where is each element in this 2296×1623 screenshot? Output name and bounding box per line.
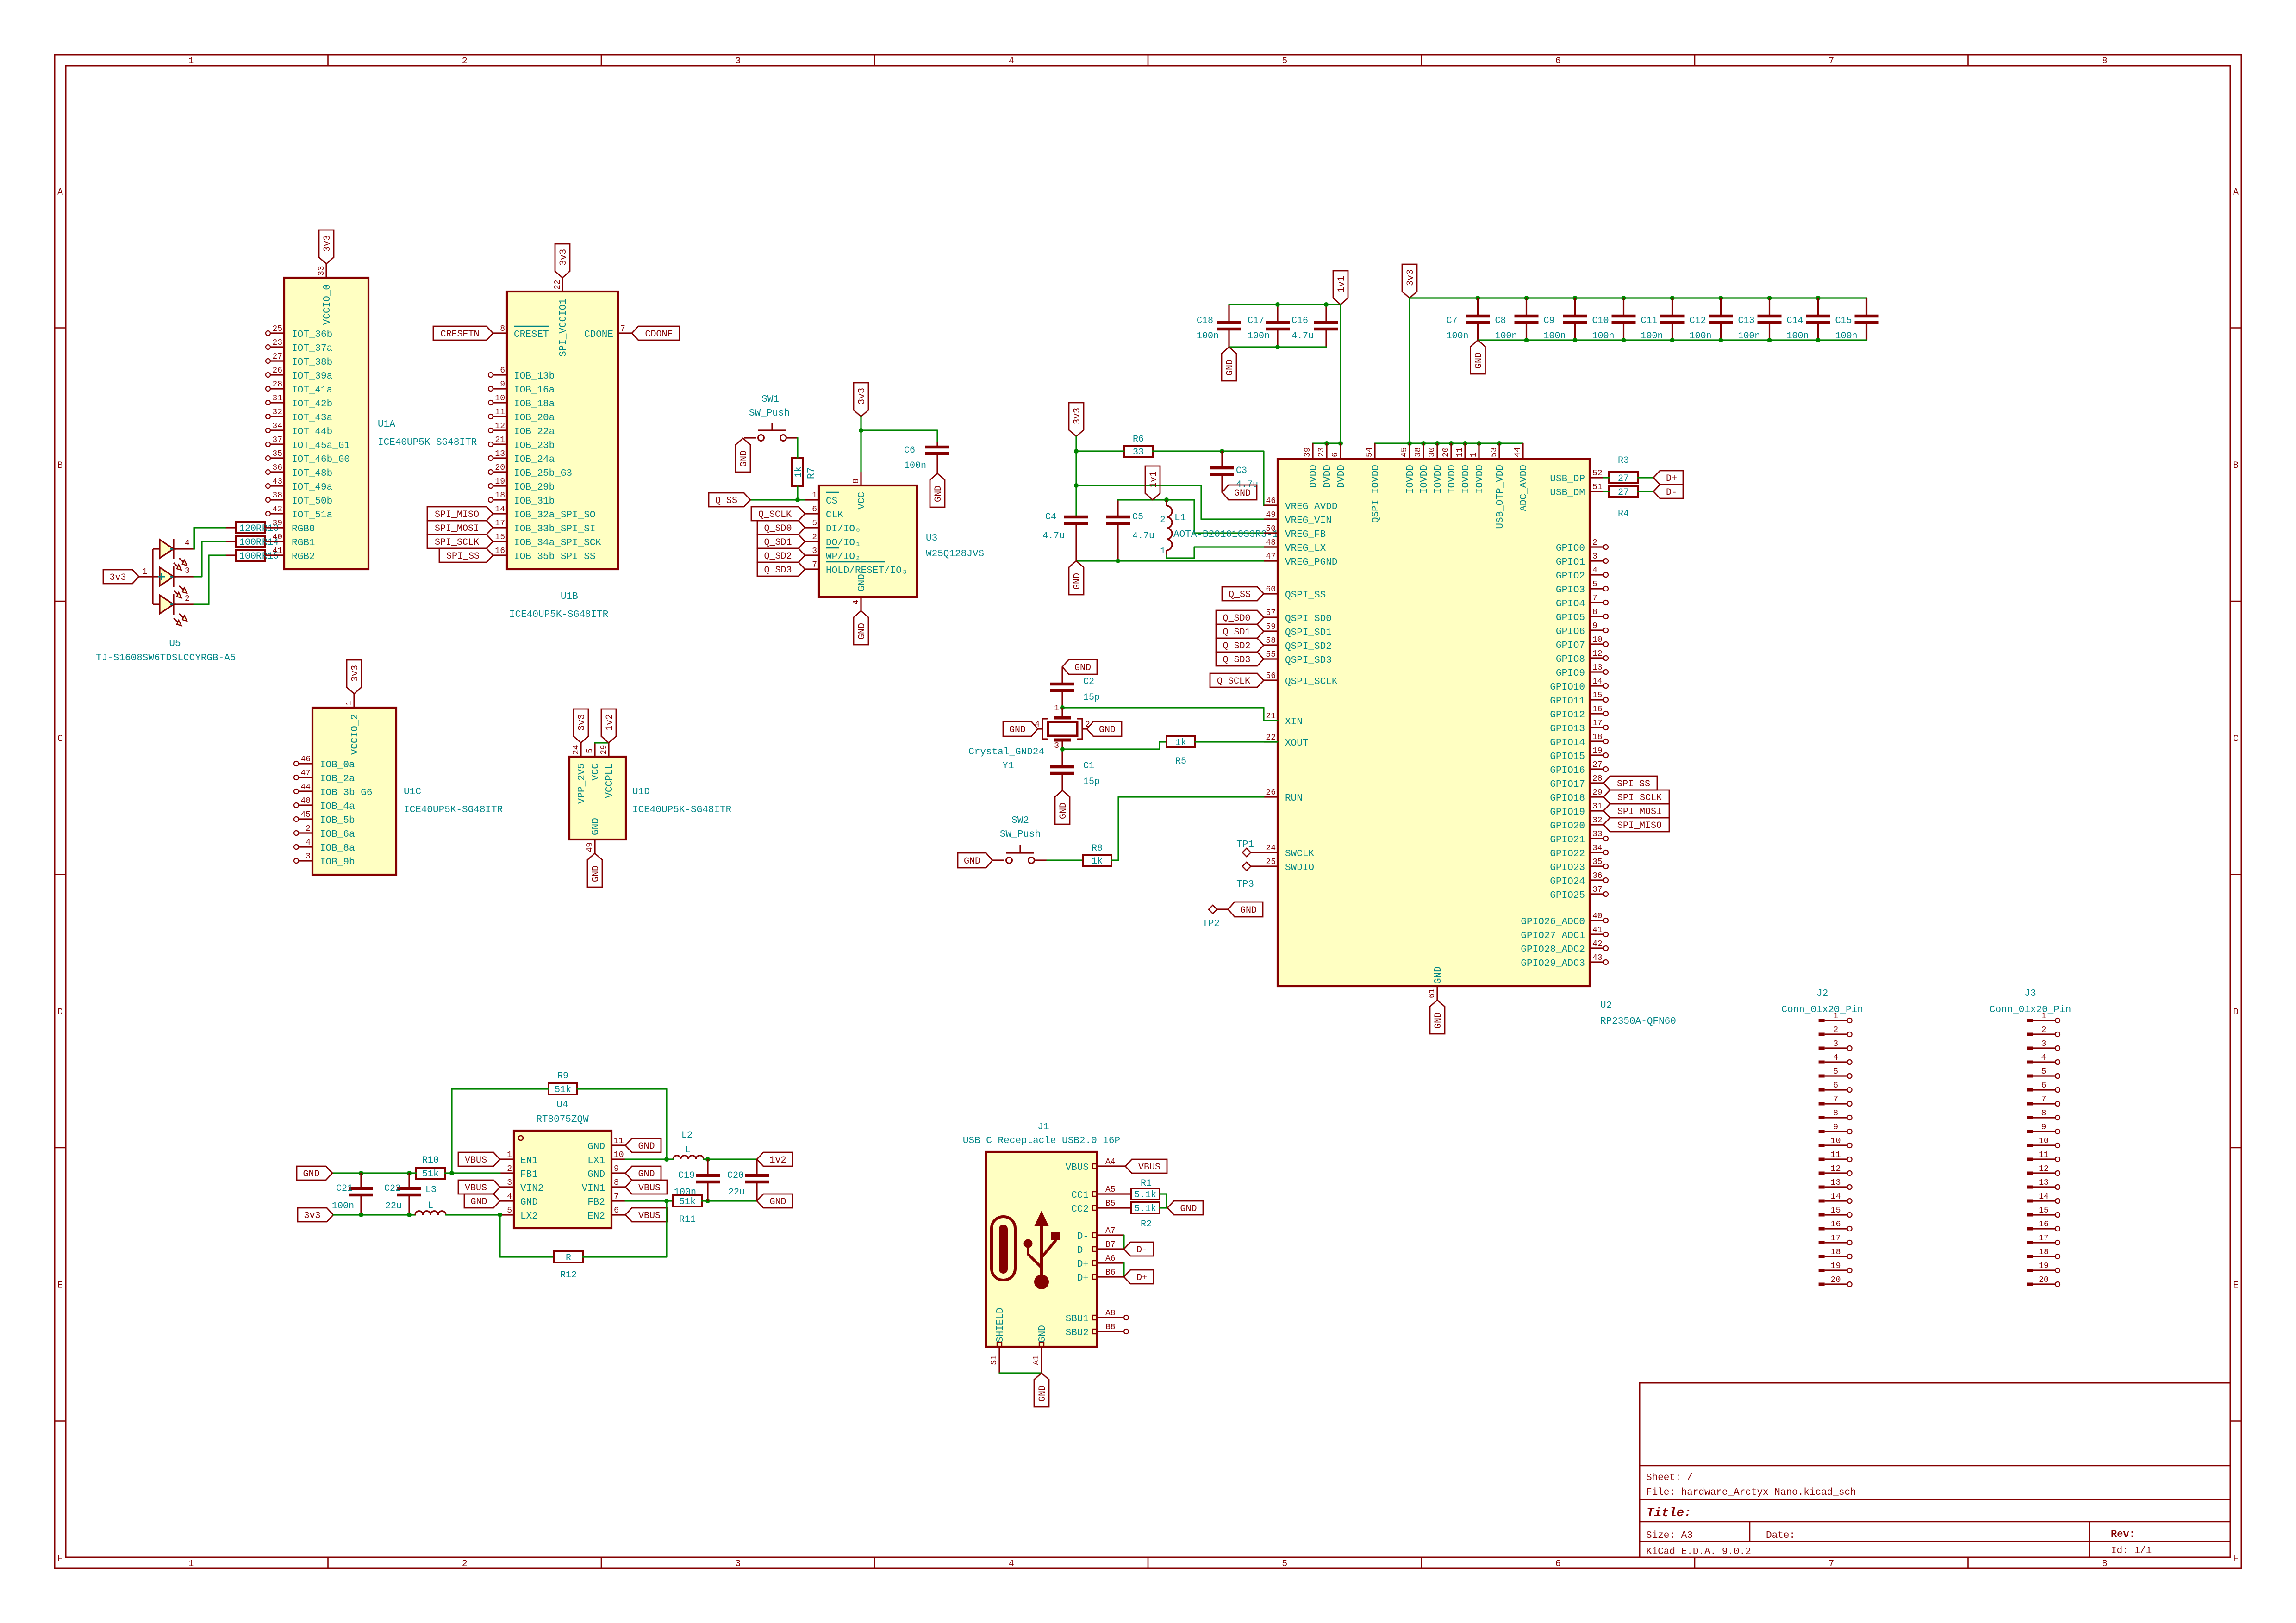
svg-text:A6: A6 bbox=[1105, 1254, 1116, 1263]
svg-text:IOB_8a: IOB_8a bbox=[320, 843, 355, 854]
svg-text:DI/IO₀: DI/IO₀ bbox=[826, 524, 861, 535]
power flag GND (C4/C5) bbox=[1069, 561, 1084, 595]
svg-text:SPI_SS: SPI_SS bbox=[446, 551, 480, 562]
capacitor C1 15p bbox=[1050, 749, 1100, 790]
svg-text:1: 1 bbox=[1160, 546, 1165, 556]
svg-text:IOB_13b: IOB_13b bbox=[514, 371, 555, 382]
svg-text:19: 19 bbox=[495, 477, 505, 486]
svg-text:31: 31 bbox=[272, 394, 282, 403]
svg-text:6: 6 bbox=[614, 1206, 619, 1215]
svg-text:5.1k: 5.1k bbox=[1134, 1204, 1156, 1214]
svg-text:GND: GND bbox=[1240, 905, 1257, 916]
global label GND (C21/C22 top) bbox=[297, 1166, 332, 1180]
svg-text:1v1: 1v1 bbox=[1148, 471, 1159, 488]
wire XOUT net bbox=[1060, 742, 1167, 752]
global label CDONE bbox=[632, 326, 680, 340]
wire SW1-R7 bbox=[797, 438, 798, 458]
svg-text:GPIO5: GPIO5 bbox=[1556, 613, 1585, 623]
global label Q_SD3 (U2) bbox=[1216, 652, 1264, 666]
svg-text:R13: R13 bbox=[262, 523, 279, 534]
svg-text:C22: C22 bbox=[384, 1183, 401, 1194]
svg-text:31: 31 bbox=[1592, 802, 1603, 811]
svg-text:CRESETN: CRESETN bbox=[440, 329, 479, 340]
svg-text:51: 51 bbox=[1592, 483, 1603, 492]
global label Q_SD0 (U2) bbox=[1216, 610, 1264, 624]
svg-text:8: 8 bbox=[852, 479, 861, 484]
wire C18/C17/C16 bottoms to GND bbox=[1229, 345, 1326, 349]
svg-text:20: 20 bbox=[2039, 1275, 2049, 1285]
svg-text:SPI_SCLK: SPI_SCLK bbox=[435, 537, 479, 548]
svg-text:GPIO19: GPIO19 bbox=[1550, 807, 1585, 818]
capacitor C3 4.7u bbox=[1210, 451, 1258, 492]
inductor L2 L bbox=[673, 1130, 704, 1159]
svg-text:R14: R14 bbox=[262, 537, 279, 548]
svg-text:VCCIO_0: VCCIO_0 bbox=[322, 284, 333, 325]
IC U1C ICE40UP5K-SG48ITR (I/O bank 2) bbox=[294, 694, 503, 875]
svg-text:120R: 120R bbox=[239, 523, 262, 534]
svg-text:7: 7 bbox=[812, 560, 817, 570]
svg-text:GPIO1: GPIO1 bbox=[1556, 557, 1585, 568]
svg-text:32: 32 bbox=[1592, 816, 1603, 825]
svg-text:10: 10 bbox=[495, 394, 505, 403]
svg-text:QSPI_SCLK: QSPI_SCLK bbox=[1285, 677, 1338, 687]
svg-text:28: 28 bbox=[1592, 774, 1603, 784]
wire R5 to XOUT bbox=[1195, 741, 1278, 742]
svg-text:IOT_41a: IOT_41a bbox=[292, 385, 332, 396]
svg-text:F: F bbox=[2233, 1554, 2239, 1564]
global label GND (U4 pin 4) bbox=[464, 1194, 500, 1208]
svg-text:GND: GND bbox=[857, 623, 867, 640]
svg-text:1v1: 1v1 bbox=[1336, 276, 1347, 292]
svg-text:GND: GND bbox=[520, 1197, 538, 1208]
svg-text:VCC: VCC bbox=[857, 492, 867, 510]
global label SPI_SS bbox=[439, 548, 493, 562]
svg-text:35: 35 bbox=[272, 449, 282, 459]
wire LX1-L2 bbox=[667, 1158, 673, 1160]
svg-text:7: 7 bbox=[620, 324, 625, 334]
power flag 3v3 (VREG input) bbox=[1069, 403, 1084, 436]
svg-text:12: 12 bbox=[1831, 1164, 1841, 1174]
svg-text:IOVDD: IOVDD bbox=[1461, 465, 1472, 494]
svg-text:SHIELD: SHIELD bbox=[995, 1307, 1006, 1343]
svg-text:VBUS: VBUS bbox=[638, 1183, 661, 1194]
global label D+ bbox=[1653, 471, 1683, 485]
svg-text:6: 6 bbox=[1555, 56, 1561, 67]
svg-text:4.7u: 4.7u bbox=[1291, 331, 1314, 342]
wire 3v3 to VCC and C6 bbox=[859, 417, 937, 472]
svg-text:GPIO0: GPIO0 bbox=[1556, 543, 1585, 554]
svg-text:9: 9 bbox=[614, 1164, 619, 1174]
svg-text:SWCLK: SWCLK bbox=[1285, 849, 1314, 859]
svg-text:C19: C19 bbox=[678, 1170, 695, 1181]
resistor R1 5.1k bbox=[1131, 1178, 1160, 1200]
svg-text:RUN: RUN bbox=[1285, 793, 1303, 804]
power flag GND (C7 rail) bbox=[1471, 340, 1485, 374]
svg-text:U1A: U1A bbox=[378, 419, 395, 430]
svg-text:7: 7 bbox=[1828, 56, 1834, 67]
svg-text:SPI_MOSI: SPI_MOSI bbox=[435, 523, 479, 534]
svg-text:Q_SD0: Q_SD0 bbox=[764, 523, 792, 534]
svg-text:1k: 1k bbox=[1175, 738, 1186, 748]
svg-text:4: 4 bbox=[185, 539, 190, 548]
svg-text:A1: A1 bbox=[1032, 1355, 1041, 1365]
svg-text:17: 17 bbox=[495, 519, 505, 528]
capacitor C17 100n bbox=[1248, 305, 1290, 347]
global label Q_SD2 (U2) bbox=[1216, 638, 1264, 652]
svg-text:IOB_0a: IOB_0a bbox=[320, 760, 355, 771]
svg-text:WP/IO₂: WP/IO₂ bbox=[826, 552, 861, 562]
svg-text:26: 26 bbox=[1266, 788, 1276, 797]
svg-text:43: 43 bbox=[1592, 953, 1603, 963]
global label Q_SS (U3 CS) bbox=[709, 493, 750, 507]
svg-text:U3: U3 bbox=[926, 533, 937, 544]
svg-text:18: 18 bbox=[2039, 1248, 2049, 1257]
svg-text:5: 5 bbox=[507, 1206, 512, 1215]
svg-text:GND: GND bbox=[739, 450, 749, 467]
wire 1v1 feedback rail bbox=[1118, 497, 1278, 533]
svg-text:Size: A3: Size: A3 bbox=[1646, 1530, 1693, 1541]
svg-text:C3: C3 bbox=[1236, 466, 1247, 476]
svg-text:4: 4 bbox=[1009, 1559, 1014, 1569]
wire R1/R2 to GND bbox=[1160, 1194, 1167, 1208]
svg-text:2: 2 bbox=[812, 533, 817, 542]
svg-text:RGB1: RGB1 bbox=[292, 538, 315, 548]
power flag GND (C3) bbox=[1222, 485, 1257, 500]
svg-text:2: 2 bbox=[462, 1559, 468, 1569]
global label SPI_SS (GPIO17) bbox=[1603, 776, 1657, 790]
svg-text:E: E bbox=[2233, 1280, 2239, 1291]
svg-text:15: 15 bbox=[495, 533, 505, 542]
svg-text:Id: 1/1: Id: 1/1 bbox=[2111, 1546, 2152, 1556]
svg-text:IOB_32a_SPI_SO: IOB_32a_SPI_SO bbox=[514, 510, 595, 521]
connector J1 USB_C_Receptacle_USB2.0_16P bbox=[963, 1122, 1131, 1373]
svg-text:4: 4 bbox=[2041, 1053, 2046, 1063]
svg-text:5: 5 bbox=[2041, 1067, 2046, 1076]
power flag 3v3 (U1A pin 33) bbox=[319, 230, 334, 264]
svg-text:A4: A4 bbox=[1105, 1157, 1116, 1167]
svg-text:C4: C4 bbox=[1045, 512, 1056, 522]
power flag 3v3 (U3 VCC) bbox=[854, 383, 868, 417]
svg-text:ICE40UP5K-SG48ITR: ICE40UP5K-SG48ITR bbox=[378, 437, 477, 448]
svg-text:GND: GND bbox=[1180, 1204, 1197, 1214]
svg-text:8: 8 bbox=[500, 324, 505, 334]
IC U2 RP2350A-QFN60 microcontroller bbox=[1264, 443, 1676, 1027]
svg-text:27: 27 bbox=[272, 352, 282, 361]
svg-text:C8: C8 bbox=[1495, 316, 1506, 326]
capacitor C18 100n bbox=[1197, 305, 1241, 347]
svg-text:2: 2 bbox=[507, 1164, 512, 1174]
svg-text:QSPI_IOVDD: QSPI_IOVDD bbox=[1371, 465, 1381, 523]
svg-text:100R: 100R bbox=[239, 551, 262, 562]
svg-text:IOB_25b_G3: IOB_25b_G3 bbox=[514, 468, 572, 479]
svg-text:11: 11 bbox=[614, 1137, 624, 1146]
svg-text:5: 5 bbox=[812, 519, 817, 528]
svg-text:CDONE: CDONE bbox=[584, 330, 613, 340]
power flag GND (SW1) bbox=[736, 438, 750, 472]
global label VBUS (VIN2) bbox=[458, 1180, 500, 1194]
svg-text:C: C bbox=[57, 734, 63, 744]
svg-text:F: F bbox=[57, 1554, 63, 1564]
capacitor C21 100n bbox=[332, 1173, 373, 1215]
svg-text:1: 1 bbox=[142, 567, 147, 577]
svg-text:IOT_36b: IOT_36b bbox=[292, 330, 332, 340]
svg-text:3v3: 3v3 bbox=[322, 235, 333, 252]
svg-text:Q_SD3: Q_SD3 bbox=[1223, 655, 1250, 665]
svg-text:GND: GND bbox=[591, 818, 601, 835]
svg-text:W25Q128JVS: W25Q128JVS bbox=[926, 549, 984, 560]
svg-text:C7: C7 bbox=[1447, 316, 1458, 326]
capacitor C13 100n bbox=[1738, 298, 1782, 342]
svg-text:VBUS: VBUS bbox=[1066, 1163, 1089, 1173]
capacitor C7 100n bbox=[1447, 298, 1490, 342]
svg-text:LX1: LX1 bbox=[587, 1156, 605, 1166]
svg-text:C20: C20 bbox=[727, 1170, 744, 1181]
power flag GND (Y1 pin 4) bbox=[1003, 721, 1038, 736]
svg-text:B8: B8 bbox=[1105, 1323, 1116, 1332]
global label SPI_MISO bbox=[427, 507, 493, 521]
push button SW1 SW_Push bbox=[744, 394, 798, 441]
wire VCC to 1v2 bbox=[595, 742, 609, 743]
capacitor C8 100n bbox=[1495, 298, 1539, 342]
capacitor C6 100n bbox=[904, 442, 949, 473]
svg-text:GND: GND bbox=[1433, 1012, 1444, 1029]
svg-text:4: 4 bbox=[507, 1192, 512, 1201]
svg-text:2: 2 bbox=[306, 824, 311, 833]
svg-text:U1C: U1C bbox=[404, 787, 421, 797]
svg-text:C17: C17 bbox=[1248, 316, 1264, 326]
svg-text:23: 23 bbox=[1317, 447, 1326, 457]
IC U4 RT8075ZQW dual buck bbox=[500, 1100, 625, 1228]
svg-text:IOB_34a_SPI_SCK: IOB_34a_SPI_SCK bbox=[514, 538, 601, 548]
svg-text:25: 25 bbox=[272, 324, 282, 334]
inductor L1 AOTA-B201610S3R3-101-T bbox=[1160, 500, 1302, 556]
svg-text:47: 47 bbox=[300, 769, 311, 778]
svg-text:Q_SD0: Q_SD0 bbox=[1223, 613, 1250, 624]
svg-text:29: 29 bbox=[599, 745, 609, 755]
svg-text:Q_SD1: Q_SD1 bbox=[1223, 627, 1250, 638]
wire 1v1 rail (C18/C17/C16 tops) bbox=[1229, 302, 1341, 307]
svg-text:100n: 100n bbox=[1447, 331, 1469, 342]
svg-text:GPIO24: GPIO24 bbox=[1550, 877, 1585, 887]
wire FB2 to R11 bbox=[625, 1199, 673, 1203]
svg-text:GND: GND bbox=[638, 1141, 655, 1152]
capacitor C16 4.7u bbox=[1291, 305, 1338, 347]
resistor R13 120R bbox=[225, 522, 284, 534]
svg-text:IOB_3b_G6: IOB_3b_G6 bbox=[320, 788, 372, 798]
svg-text:GPIO27_ADC1: GPIO27_ADC1 bbox=[1521, 931, 1585, 941]
svg-text:2: 2 bbox=[185, 594, 190, 603]
svg-text:U2: U2 bbox=[1600, 1001, 1612, 1011]
svg-text:IOB_33b_SPI_SI: IOB_33b_SPI_SI bbox=[514, 524, 595, 535]
svg-text:GND: GND bbox=[591, 865, 601, 882]
svg-text:IOT_39a: IOT_39a bbox=[292, 371, 332, 382]
power flag GND (C6) bbox=[930, 473, 945, 507]
svg-text:46: 46 bbox=[1266, 497, 1276, 506]
svg-text:6: 6 bbox=[1555, 1559, 1561, 1569]
svg-text:C1: C1 bbox=[1083, 761, 1094, 771]
svg-text:58: 58 bbox=[1266, 636, 1276, 646]
resistor R4 27 bbox=[1609, 486, 1638, 519]
capacitor C9 100n bbox=[1544, 298, 1587, 342]
svg-text:GND: GND bbox=[1058, 802, 1069, 819]
capacitor C5 4.7u bbox=[1106, 500, 1154, 561]
global label Q_SD0 (U3 DI) bbox=[757, 521, 805, 535]
svg-text:IOT_48b: IOT_48b bbox=[292, 468, 332, 479]
svg-text:11: 11 bbox=[495, 408, 505, 417]
svg-text:20: 20 bbox=[1441, 447, 1451, 457]
svg-text:22: 22 bbox=[1266, 733, 1276, 742]
svg-text:R4: R4 bbox=[1618, 509, 1629, 519]
svg-text:3v3: 3v3 bbox=[109, 572, 126, 583]
svg-text:IOB_24a: IOB_24a bbox=[514, 454, 555, 465]
svg-text:7: 7 bbox=[1592, 594, 1597, 603]
svg-text:18: 18 bbox=[495, 491, 505, 500]
resistor R14 100R bbox=[225, 536, 284, 548]
wire D- pair bbox=[1123, 1235, 1124, 1249]
resistor R2 5.1k bbox=[1131, 1202, 1160, 1230]
wire R6 to VREG_AVDD and C3 bbox=[1153, 449, 1278, 505]
svg-text:GPIO17: GPIO17 bbox=[1550, 779, 1585, 790]
svg-text:3: 3 bbox=[185, 566, 190, 576]
svg-text:S1: S1 bbox=[990, 1355, 999, 1365]
svg-text:13: 13 bbox=[2039, 1178, 2049, 1188]
wire R9 left to FB1 bbox=[449, 1089, 549, 1175]
svg-text:3v3: 3v3 bbox=[857, 388, 867, 404]
capacitor C10 100n bbox=[1592, 298, 1636, 342]
svg-text:GPIO7: GPIO7 bbox=[1556, 640, 1585, 651]
svg-text:61: 61 bbox=[1428, 988, 1437, 998]
global label Q_SCLK (U3 CLK) bbox=[751, 507, 805, 521]
svg-text:QSPI_SS: QSPI_SS bbox=[1285, 590, 1326, 601]
svg-text:22u: 22u bbox=[728, 1187, 745, 1198]
global label 3v3 (L3 output) bbox=[298, 1208, 333, 1222]
svg-text:2: 2 bbox=[1833, 1026, 1838, 1035]
svg-text:3: 3 bbox=[735, 56, 741, 67]
svg-text:26: 26 bbox=[272, 366, 282, 375]
svg-text:LX2: LX2 bbox=[520, 1211, 538, 1222]
svg-text:GND: GND bbox=[964, 856, 980, 867]
svg-text:100n: 100n bbox=[674, 1187, 696, 1198]
svg-text:SBU1: SBU1 bbox=[1066, 1314, 1089, 1325]
svg-text:IOT_45a_G1: IOT_45a_G1 bbox=[292, 441, 350, 451]
svg-text:ICE40UP5K-SG48ITR: ICE40UP5K-SG48ITR bbox=[509, 609, 609, 620]
svg-text:GPIO22: GPIO22 bbox=[1550, 849, 1585, 859]
svg-text:GPIO13: GPIO13 bbox=[1550, 724, 1585, 734]
svg-text:IOT_37a: IOT_37a bbox=[292, 343, 332, 354]
svg-text:IOB_35b_SPI_SS: IOB_35b_SPI_SS bbox=[514, 552, 595, 562]
resistor R10 51k bbox=[416, 1155, 445, 1180]
svg-text:SPI_MISO: SPI_MISO bbox=[1617, 821, 1662, 831]
svg-text:C10: C10 bbox=[1592, 316, 1609, 326]
svg-text:CC2: CC2 bbox=[1071, 1204, 1089, 1215]
svg-text:8: 8 bbox=[1833, 1109, 1838, 1118]
svg-text:16: 16 bbox=[495, 547, 505, 556]
svg-text:IOVDD: IOVDD bbox=[1419, 465, 1430, 494]
svg-text:Conn_01x20_Pin: Conn_01x20_Pin bbox=[1781, 1005, 1863, 1015]
svg-text:GPIO9: GPIO9 bbox=[1556, 668, 1585, 679]
svg-text:C18: C18 bbox=[1197, 316, 1213, 326]
svg-text:17: 17 bbox=[2039, 1234, 2049, 1243]
svg-text:3v3: 3v3 bbox=[577, 714, 587, 731]
svg-text:3: 3 bbox=[812, 547, 817, 556]
wire R11 to GND label bbox=[702, 1199, 757, 1203]
svg-text:6: 6 bbox=[812, 505, 817, 514]
svg-text:3: 3 bbox=[507, 1178, 512, 1188]
svg-text:5: 5 bbox=[586, 748, 595, 753]
svg-text:51k: 51k bbox=[422, 1169, 439, 1180]
wire 1v1 to DVDD pins bbox=[1313, 305, 1343, 446]
svg-text:IOVDD: IOVDD bbox=[1475, 465, 1485, 494]
global label CRESETN bbox=[433, 326, 493, 340]
svg-text:2: 2 bbox=[462, 56, 468, 67]
svg-text:100n: 100n bbox=[1197, 331, 1219, 342]
global label Q_SD3 (U3 HOLD) bbox=[757, 562, 805, 576]
svg-text:12: 12 bbox=[495, 422, 505, 431]
svg-text:GPIO6: GPIO6 bbox=[1556, 627, 1585, 637]
svg-text:VCCIO_2: VCCIO_2 bbox=[350, 714, 361, 755]
svg-text:8: 8 bbox=[2102, 56, 2108, 67]
svg-text:L2: L2 bbox=[681, 1130, 693, 1141]
svg-text:2: 2 bbox=[2041, 1026, 2046, 1035]
svg-text:17: 17 bbox=[1831, 1234, 1841, 1243]
svg-text:GND: GND bbox=[303, 1169, 319, 1180]
svg-text:A7: A7 bbox=[1105, 1226, 1116, 1236]
svg-text:VREG_FB: VREG_FB bbox=[1285, 529, 1326, 540]
svg-text:10: 10 bbox=[1831, 1137, 1841, 1146]
svg-text:IOB_18a: IOB_18a bbox=[514, 399, 555, 410]
global label SPI_SCLK bbox=[427, 535, 493, 548]
wire LED3 to R15 bbox=[194, 555, 225, 604]
svg-text:4.7u: 4.7u bbox=[1132, 531, 1154, 541]
svg-text:5: 5 bbox=[1282, 56, 1287, 67]
global label SPI_SCLK (GPIO18) bbox=[1603, 790, 1669, 804]
svg-text:13: 13 bbox=[495, 449, 505, 459]
svg-text:41: 41 bbox=[1592, 926, 1603, 935]
svg-text:1v2: 1v2 bbox=[769, 1155, 786, 1166]
svg-text:L1: L1 bbox=[1174, 513, 1186, 523]
svg-text:J1: J1 bbox=[1037, 1122, 1049, 1132]
global label Q_SD1 (U3 DO) bbox=[757, 535, 805, 548]
capacitor C22 22u bbox=[384, 1173, 421, 1215]
svg-text:FB1: FB1 bbox=[520, 1169, 538, 1180]
svg-text:100n: 100n bbox=[904, 460, 926, 471]
svg-text:35: 35 bbox=[1592, 858, 1603, 867]
svg-text:B: B bbox=[2233, 460, 2239, 471]
svg-text:14: 14 bbox=[1831, 1192, 1841, 1201]
svg-text:R6: R6 bbox=[1133, 434, 1144, 445]
global label 1v2 (buck output) bbox=[757, 1152, 792, 1166]
svg-text:RP2350A-QFN60: RP2350A-QFN60 bbox=[1600, 1016, 1676, 1027]
svg-text:VCCPLL: VCCPLL bbox=[605, 763, 615, 798]
svg-text:ICE40UP5K-SG48ITR: ICE40UP5K-SG48ITR bbox=[404, 805, 503, 815]
global label GND (CC pulldowns) bbox=[1167, 1201, 1203, 1215]
svg-text:J3: J3 bbox=[2024, 989, 2036, 999]
svg-text:ADC_AVDD: ADC_AVDD bbox=[1519, 465, 1529, 511]
svg-text:49: 49 bbox=[586, 842, 595, 852]
svg-text:U5: U5 bbox=[169, 639, 181, 649]
svg-text:14: 14 bbox=[1592, 677, 1603, 686]
svg-text:R7: R7 bbox=[806, 467, 817, 479]
svg-text:Y1: Y1 bbox=[1002, 761, 1014, 771]
svg-text:IOB_9b: IOB_9b bbox=[320, 857, 355, 868]
wire XIN net bbox=[1060, 705, 1278, 721]
global label SPI_MOSI (GPIO19) bbox=[1603, 804, 1669, 818]
svg-text:GPIO2: GPIO2 bbox=[1556, 571, 1585, 582]
svg-text:GPIO8: GPIO8 bbox=[1556, 654, 1585, 665]
svg-text:6: 6 bbox=[500, 366, 505, 375]
svg-text:GPIO20: GPIO20 bbox=[1550, 821, 1585, 832]
svg-text:GND: GND bbox=[769, 1197, 786, 1207]
